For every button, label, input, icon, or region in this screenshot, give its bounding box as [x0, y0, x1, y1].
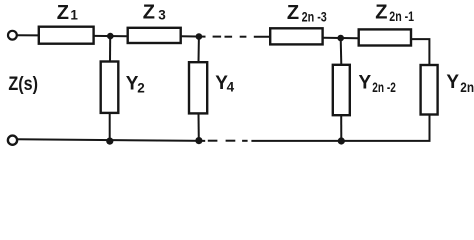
admittance Y2 — [101, 36, 119, 141]
wire: bottom rail right section — [251, 140, 430, 142]
svg-text:3: 3 — [158, 8, 166, 23]
label Y2n — [446, 72, 474, 95]
svg-text:1: 1 — [70, 8, 78, 23]
node: junction bottom of Y4 — [195, 137, 202, 144]
node: junction bottom of Y2 — [106, 138, 113, 145]
label Z1 — [57, 2, 79, 24]
label Y2n-2 — [359, 73, 396, 96]
svg-text:2n -3: 2n -3 — [302, 10, 328, 25]
label Y2 — [126, 73, 145, 95]
resistor Z2n-1 — [359, 29, 411, 45]
node: junction top of Y2n-2 — [337, 35, 344, 42]
label Y4 — [215, 73, 234, 95]
node: junction top of Y2 — [107, 33, 114, 40]
svg-text:Z(s): Z(s) — [8, 74, 38, 95]
wire: input terminal to Z1 — [17, 34, 39, 36]
svg-text:Z: Z — [375, 2, 387, 24]
wire: dashed continuation of bottom rail — [208, 140, 248, 142]
wire: Z2n-3 to Z2n-1 — [323, 37, 359, 40]
svg-text:Y: Y — [446, 72, 459, 93]
label Z3 — [143, 2, 167, 24]
svg-text:Z: Z — [143, 2, 155, 24]
svg-text:4: 4 — [227, 80, 235, 95]
svg-text:Z: Z — [287, 2, 299, 24]
node: junction top of Y4 — [196, 33, 203, 40]
admittance Y2n-2 — [333, 38, 350, 141]
wire: Z1 to Z3 — [94, 35, 128, 37]
svg-text:Y: Y — [359, 73, 372, 94]
svg-text:2n: 2n — [460, 80, 474, 95]
svg-text:Z: Z — [57, 2, 69, 24]
label Z2n-3 — [287, 2, 327, 24]
resistor Z3 — [128, 28, 181, 43]
wire: dashed break to Z2n-3 — [254, 36, 270, 38]
terminal: bottom-left input port — [8, 136, 17, 145]
wire: Z2n-1 to top-right corner down to Y2n — [411, 39, 429, 65]
node: junction bottom of Y2n-2 — [338, 137, 345, 144]
svg-text:2n -1: 2n -1 — [389, 9, 414, 24]
admittance Y4 — [189, 37, 207, 141]
wire: dashed continuation of top rail — [213, 36, 247, 38]
resistor Z2n-3 — [270, 28, 322, 44]
resistor Z1 — [39, 27, 94, 44]
wire: Z3 to dashed break — [181, 35, 206, 37]
label Z2n-1 — [375, 2, 414, 25]
wire: bottom rail left section — [17, 139, 205, 141]
svg-text:2n -2: 2n -2 — [372, 80, 396, 95]
admittance Y2n — [421, 65, 438, 141]
svg-text:2: 2 — [137, 81, 145, 96]
terminal: top-left input port — [8, 31, 17, 40]
